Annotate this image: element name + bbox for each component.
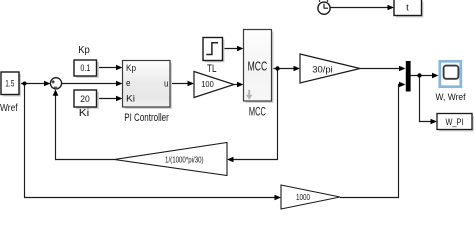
svg-text:e: e <box>126 78 131 88</box>
svg-text:1/(1000*pi/30): 1/(1000*pi/30) <box>165 155 204 165</box>
svg-text:t: t <box>406 3 409 14</box>
svg-text:Ki: Ki <box>126 94 135 104</box>
svg-text:u: u <box>164 78 169 88</box>
svg-text:MCC: MCC <box>248 58 268 73</box>
svg-text:MCC: MCC <box>249 105 266 119</box>
svg-text:Kp: Kp <box>78 44 90 56</box>
svg-text:Wref: Wref <box>0 102 18 114</box>
svg-text:W_PI: W_PI <box>446 117 464 127</box>
svg-text:100: 100 <box>201 79 214 89</box>
svg-text:W, Wref: W, Wref <box>436 92 466 103</box>
svg-text:1000: 1000 <box>296 192 310 202</box>
svg-text:PI Controller: PI Controller <box>124 112 169 124</box>
svg-text:20: 20 <box>80 94 90 104</box>
svg-text:Kp: Kp <box>126 63 136 73</box>
svg-text:Ki: Ki <box>79 107 90 119</box>
svg-text:1.5: 1.5 <box>5 79 14 89</box>
svg-text:0.1: 0.1 <box>80 63 90 73</box>
svg-text:30/pi: 30/pi <box>312 65 333 75</box>
svg-text:TL: TL <box>207 63 217 75</box>
